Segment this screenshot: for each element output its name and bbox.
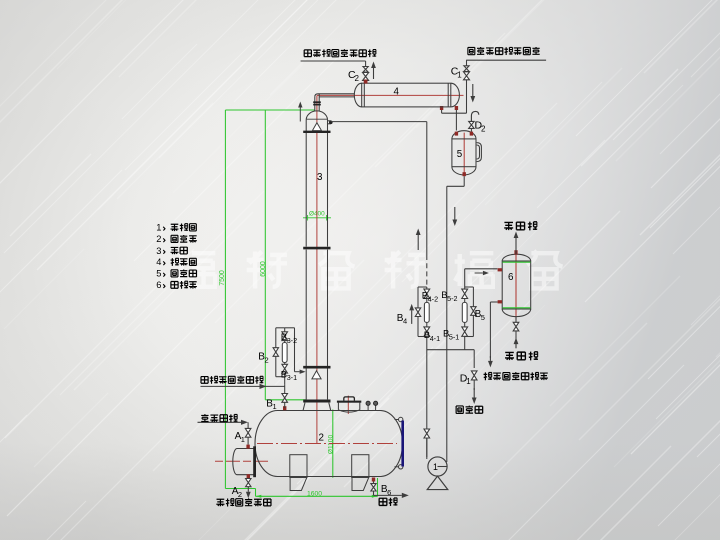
svg-text:5: 5 [156,269,161,279]
svg-text:2: 2 [265,355,269,364]
svg-text:6: 6 [156,280,161,290]
svg-text:1: 1 [273,402,277,411]
svg-text:5-1: 5-1 [449,332,459,341]
svg-text:5: 5 [481,313,485,322]
svg-text:3: 3 [317,172,323,183]
svg-text:6000: 6000 [260,261,267,277]
svg-text:6: 6 [508,272,514,283]
svg-text:7500: 7500 [219,270,226,286]
svg-text:1: 1 [457,70,462,79]
svg-text:3: 3 [156,246,161,256]
svg-text:4: 4 [403,317,407,326]
svg-text:3-1: 3-1 [287,373,297,382]
svg-text:2: 2 [238,490,242,499]
svg-text:4-1: 4-1 [430,334,440,343]
svg-text:6: 6 [387,488,391,497]
svg-text:1: 1 [156,223,161,233]
svg-text:1: 1 [466,377,471,386]
svg-text:4-2: 4-2 [428,294,438,303]
svg-text:1600: 1600 [307,490,322,497]
svg-text:2: 2 [481,124,486,133]
svg-text:1: 1 [433,462,438,472]
svg-text:2: 2 [319,433,324,444]
svg-text:3-2: 3-2 [287,336,297,345]
svg-text:2: 2 [355,74,360,83]
svg-text:2: 2 [156,234,161,244]
svg-text:4: 4 [394,86,400,97]
svg-text:1: 1 [241,435,245,444]
svg-text:Ø1100: Ø1100 [328,435,335,455]
svg-text:5-2: 5-2 [447,294,457,303]
svg-text:4: 4 [156,257,161,267]
svg-text:5: 5 [457,149,463,160]
